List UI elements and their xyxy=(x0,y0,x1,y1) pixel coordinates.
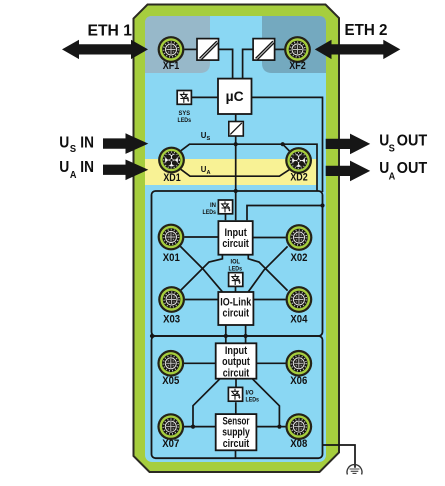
svg-text:XF1: XF1 xyxy=(163,60,180,72)
connector X01 xyxy=(158,224,185,251)
svg-text:circuit: circuit xyxy=(223,367,250,379)
svg-text:I/O: I/O xyxy=(246,390,254,397)
IO-Link circuit block xyxy=(218,292,253,325)
UA IN arrow xyxy=(103,160,148,181)
junction node on US rail right xyxy=(281,142,285,146)
wire T1 to uC xyxy=(218,49,232,78)
junction node box boundary center-right xyxy=(244,334,248,338)
gray zone around XF2 xyxy=(262,16,326,73)
input circuit block xyxy=(218,221,252,255)
wire XF1 to T1 xyxy=(184,48,197,50)
junction node box1 top xyxy=(234,189,238,193)
wire IO-Link circuit to input output circuit (left) xyxy=(225,325,227,343)
svg-text:IOL: IOL xyxy=(231,258,241,265)
connector X06 xyxy=(285,350,312,377)
svg-text:OUT: OUT xyxy=(397,160,428,177)
connector X04 xyxy=(286,286,313,313)
wire I/O LED to sensor supply circuit xyxy=(235,402,237,414)
wire X07 to sensor supply circuit xyxy=(184,426,216,428)
svg-text:LEDs: LEDs xyxy=(178,117,192,124)
wire X04 to IO-Link circuit xyxy=(253,299,285,301)
wire T2 to XF2 xyxy=(275,48,285,50)
wire SYS LEDs to uC xyxy=(192,96,219,98)
svg-text:circuit: circuit xyxy=(223,438,250,450)
svg-text:LEDs: LEDs xyxy=(203,209,217,216)
connector X02 xyxy=(286,224,313,251)
svg-text:ETH 2: ETH 2 xyxy=(345,22,388,39)
svg-text:X04: X04 xyxy=(290,314,308,326)
svg-text:S: S xyxy=(70,144,77,155)
junction node X07 wire xyxy=(191,425,195,429)
US rail xyxy=(181,144,317,191)
US rail branch to XD2 xyxy=(283,144,290,151)
svg-text:Input: Input xyxy=(224,227,247,239)
interior light blue panel xyxy=(145,16,326,462)
svg-text:output: output xyxy=(222,356,250,368)
svg-text:OUT: OUT xyxy=(397,132,428,149)
svg-text:Sensor: Sensor xyxy=(223,416,250,428)
svg-text:XF2: XF2 xyxy=(289,60,306,72)
svg-text:A: A xyxy=(389,171,396,182)
wire IO-Link circuit to input output circuit (right) xyxy=(245,325,247,343)
svg-text:XD1: XD1 xyxy=(163,172,180,184)
svg-text:IN: IN xyxy=(210,202,216,209)
wire uC right bus down right side xyxy=(252,97,323,192)
yellow UA power band xyxy=(145,159,317,185)
svg-text:LEDs: LEDs xyxy=(229,266,243,273)
svg-text:SYS: SYS xyxy=(179,110,191,117)
svg-text:Input: Input xyxy=(225,345,248,357)
junction node on US rail at center xyxy=(234,142,238,146)
connector XD2 xyxy=(285,147,312,174)
gray zone around XF1 xyxy=(145,16,210,73)
transformer T1 xyxy=(197,39,219,61)
svg-text:IN: IN xyxy=(80,135,94,152)
input output circuit block xyxy=(216,343,257,378)
ground symbol xyxy=(347,465,362,475)
IO section box 2 xyxy=(152,336,323,458)
wire X08 to sensor supply circuit xyxy=(256,426,285,428)
svg-text:supply: supply xyxy=(222,427,250,439)
I/O LEDs indicator xyxy=(228,387,242,401)
ETH 1 arrow xyxy=(62,40,148,59)
connector X05 xyxy=(157,350,184,377)
connector X07 xyxy=(157,413,184,440)
connector XD1 xyxy=(158,147,185,174)
svg-text:circuit: circuit xyxy=(222,238,249,250)
svg-text:X01: X01 xyxy=(163,252,180,264)
sensor supply circuit block xyxy=(216,414,257,450)
ETH 2 arrow xyxy=(315,40,401,59)
svg-text:XD2: XD2 xyxy=(290,172,307,184)
junction node box boundary left xyxy=(150,334,154,338)
wire bus to input circuit xyxy=(247,206,323,221)
IO section box 1 xyxy=(152,191,323,336)
junction node box boundary center-left xyxy=(224,334,228,338)
wire DC converter to US rail, down to box1 and input circuit xyxy=(235,136,237,220)
wire input output circuit to X07 node xyxy=(193,379,220,427)
wire X03 to IO-Link circuit xyxy=(185,299,218,301)
transformer T2 xyxy=(253,39,275,61)
wire X02 to input circuit xyxy=(253,237,285,239)
IN LEDs indicator xyxy=(218,200,232,214)
wire T2 to uC xyxy=(243,49,254,78)
US IN arrow xyxy=(103,133,148,154)
svg-text:X06: X06 xyxy=(290,375,307,387)
svg-text:X02: X02 xyxy=(291,252,308,264)
svg-text:IN: IN xyxy=(80,159,94,176)
svg-text:A: A xyxy=(70,170,77,181)
wire IOL LED to IO-Link circuit xyxy=(235,285,237,292)
SYS LEDs indicator xyxy=(177,91,191,105)
wire uC to DC converter xyxy=(235,114,237,122)
wire X03 to input circuit xyxy=(180,255,222,291)
ground wire xyxy=(323,445,356,468)
svg-text:IO-Link: IO-Link xyxy=(220,296,251,308)
UA rail xyxy=(181,169,289,176)
wire X05 to input output circuit xyxy=(184,362,216,364)
microcontroller uC xyxy=(218,79,252,114)
wire input output circuit to I/O LED xyxy=(235,379,237,388)
svg-text:µC: µC xyxy=(226,89,244,104)
junction node right bus xyxy=(320,203,324,207)
wire X01 to IO-Link circuit xyxy=(180,246,222,291)
svg-text:X08: X08 xyxy=(290,438,307,450)
svg-text:X05: X05 xyxy=(162,375,179,387)
connector X08 xyxy=(285,413,312,440)
wire X02 to IO-Link circuit xyxy=(248,246,287,291)
wire X06 to input output circuit xyxy=(256,362,285,364)
US OUT arrow xyxy=(326,134,371,155)
junction node X08 wire xyxy=(277,425,281,429)
UA OUT arrow xyxy=(326,161,371,182)
wire input output circuit to X08 node xyxy=(252,379,279,427)
svg-text:circuit: circuit xyxy=(223,308,250,320)
wire X01 to input circuit xyxy=(184,236,219,238)
svg-text:LEDs: LEDs xyxy=(246,397,260,404)
svg-text:ETH 1: ETH 1 xyxy=(88,22,133,39)
device body (green housing with chamfered corners) xyxy=(134,5,340,473)
DC converter xyxy=(229,122,244,137)
connector XF2 xyxy=(284,36,311,63)
wire IN LED to input circuit xyxy=(225,214,227,220)
svg-text:X03: X03 xyxy=(163,314,180,326)
svg-text:U: U xyxy=(59,135,69,152)
svg-text:U: U xyxy=(59,159,69,176)
wire X04 to input circuit xyxy=(248,255,287,291)
svg-text:S: S xyxy=(389,144,396,155)
wire sensor supply circuit to box2 bottom xyxy=(235,450,237,458)
connector X03 xyxy=(158,286,185,313)
connector XF1 xyxy=(158,36,185,63)
svg-text:X07: X07 xyxy=(162,438,179,450)
